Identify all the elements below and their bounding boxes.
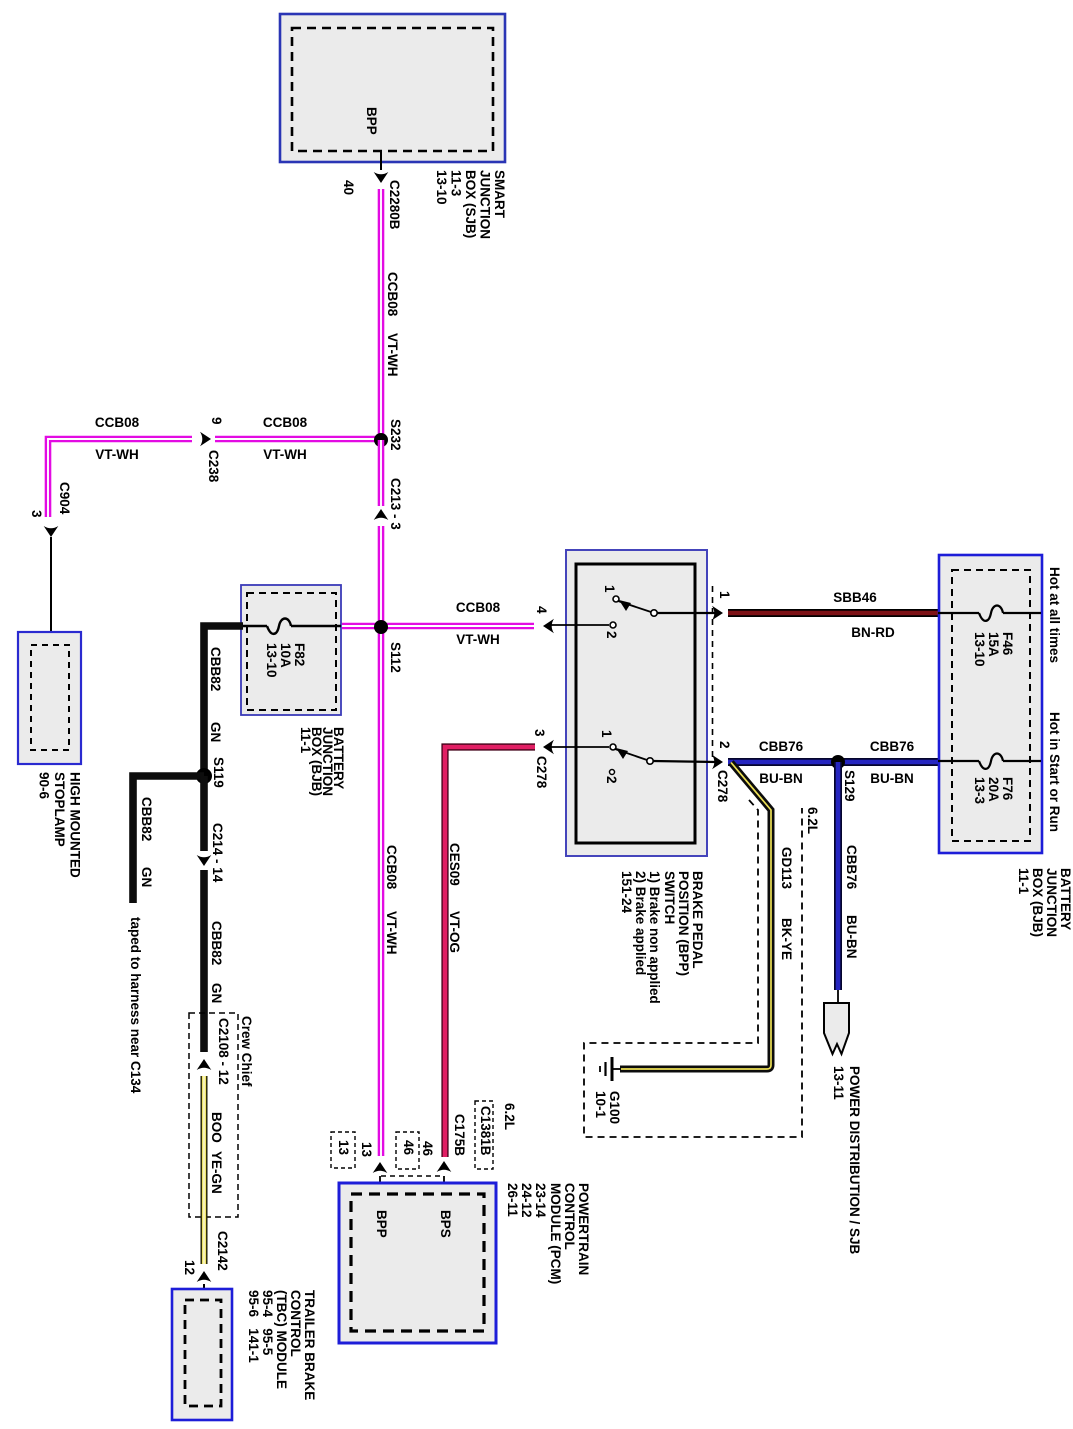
dashed box pin 13	[331, 1132, 355, 1168]
switch 2 output wire	[653, 761, 716, 762]
wire BOO YE-GN	[201, 1076, 208, 1264]
svg-text:F82: F82	[292, 643, 307, 666]
black wire CBB82 from F82 to S119	[204, 626, 243, 776]
6.2L dashed enclosure	[584, 800, 802, 1137]
svg-text:GN: GN	[209, 983, 224, 1003]
wire CCB08 vertical upper (VT-WH)	[378, 189, 385, 434]
label TRAILER BRAKE CONTROL (TBC) MODULE	[246, 1290, 317, 1400]
svg-text:VT-WH: VT-WH	[384, 911, 399, 955]
svg-text:Hot in Start or Run: Hot in Start or Run	[1047, 712, 1062, 832]
svg-text:46: 46	[401, 1140, 416, 1156]
connector 1 arrow right	[712, 606, 723, 621]
svg-text:2: 2	[604, 776, 619, 784]
svg-text:YE-GN: YE-GN	[209, 1151, 224, 1194]
label BATTERY JUNCTION BOX (BJB) 11-1 right	[1016, 868, 1073, 937]
svg-text:MODULE (PCM): MODULE (PCM)	[548, 1183, 563, 1284]
Crew Chief dashed box	[189, 1013, 238, 1217]
label F82 10A 13-10	[264, 643, 307, 678]
svg-text:CCB08: CCB08	[384, 845, 399, 890]
switch 1 pin 1 circle	[613, 596, 619, 602]
connector C175B arrow BPP	[373, 1162, 388, 1173]
switch 2 pin 1 circle	[610, 744, 616, 750]
svg-text:CONTROL: CONTROL	[288, 1290, 303, 1357]
svg-text:BPP: BPP	[364, 107, 379, 135]
dashed box pin 46	[396, 1132, 419, 1169]
connector 3 arrow	[543, 740, 554, 755]
svg-text:2) Brake applied: 2) Brake applied	[633, 871, 648, 975]
svg-text:40: 40	[341, 180, 356, 195]
svg-text:BU-BN: BU-BN	[759, 771, 803, 786]
svg-text:BU-BN: BU-BN	[870, 771, 914, 786]
svg-text:46: 46	[420, 1141, 435, 1157]
SJB box	[280, 14, 505, 162]
switch 1 pin 2 circle	[610, 622, 616, 628]
svg-text:C214 - 14: C214 - 14	[210, 823, 225, 883]
wire CCB08 vertical below C213	[378, 526, 385, 1156]
svg-text:S112: S112	[388, 642, 403, 673]
svg-text:CCB08: CCB08	[385, 272, 400, 317]
svg-text:C175B: C175B	[452, 1114, 467, 1156]
svg-text:6.2L: 6.2L	[502, 1103, 517, 1130]
svg-text:90-6: 90-6	[37, 772, 52, 800]
svg-text:POSITION (BPP): POSITION (BPP)	[676, 871, 691, 976]
svg-text:HIGH MOUNTED: HIGH MOUNTED	[68, 772, 83, 878]
wire CBB76 BU-BN horizontal	[728, 758, 938, 766]
svg-text:C2142: C2142	[215, 1231, 230, 1271]
wire CCB08 horizontal top-left with corner at C904	[48, 439, 381, 517]
BJB right box	[939, 555, 1042, 853]
svg-text:CCB08: CCB08	[456, 600, 501, 615]
connector C214-14 arrow	[197, 855, 212, 866]
svg-text:13: 13	[359, 1142, 374, 1158]
svg-text:CONTROL: CONTROL	[562, 1183, 577, 1250]
black wire branch to taped harness	[133, 776, 204, 903]
svg-text:CBB82: CBB82	[139, 797, 154, 841]
svg-text:20A: 20A	[986, 777, 1001, 802]
black wire to crew chief	[200, 870, 208, 1052]
svg-text:3: 3	[29, 510, 44, 518]
wire CES09 VT-OG	[445, 747, 535, 1157]
svg-text:C904: C904	[57, 482, 72, 515]
svg-text:SBB46: SBB46	[833, 590, 877, 605]
svg-text:GN: GN	[139, 867, 154, 887]
connector C2108 arrow	[197, 1059, 212, 1070]
svg-text:GN: GN	[208, 722, 223, 742]
svg-text:4: 4	[534, 606, 549, 614]
svg-text:C2108 - 12: C2108 - 12	[216, 1018, 231, 1085]
svg-text:9: 9	[209, 417, 224, 425]
SJB label	[434, 170, 507, 239]
svg-text:95-6 141-1: 95-6 141-1	[246, 1290, 261, 1363]
svg-text:13-11: 13-11	[831, 1066, 846, 1100]
svg-text:10A: 10A	[278, 643, 293, 668]
svg-text:C278: C278	[715, 770, 730, 803]
fuse F82	[243, 619, 341, 634]
switch 2 arm arrowhead	[616, 748, 628, 759]
svg-text:TRAILER BRAKE: TRAILER BRAKE	[302, 1290, 317, 1400]
svg-text:C213 - 3: C213 - 3	[388, 478, 403, 530]
svg-text:STOPLAMP: STOPLAMP	[52, 772, 67, 847]
svg-text:13-10: 13-10	[264, 643, 279, 678]
svg-text:2: 2	[717, 741, 732, 749]
svg-text:SMART: SMART	[492, 170, 507, 219]
F82 BJB box	[241, 585, 341, 715]
connector 2 arrow right	[712, 755, 723, 770]
svg-text:F46: F46	[1000, 632, 1015, 656]
connector C175B arrow BPS	[437, 1161, 452, 1172]
svg-text:S119: S119	[211, 757, 226, 788]
switch 2 wire from 3 arrow to pin 1	[548, 746, 609, 748]
svg-text:C238: C238	[206, 450, 221, 483]
svg-text:S232: S232	[388, 419, 403, 451]
svg-text:SWITCH: SWITCH	[662, 871, 677, 924]
wire CBB76 vertical	[834, 762, 842, 990]
wire stub PCM BPS	[443, 1176, 445, 1194]
label HIGH MOUNTED STOPLAMP	[37, 772, 83, 878]
svg-text:JUNCTION: JUNCTION	[1044, 868, 1059, 937]
wire stub to power distribution	[837, 990, 839, 1004]
svg-text:3: 3	[532, 729, 547, 737]
svg-text:BOX (BJB): BOX (BJB)	[1030, 868, 1045, 937]
switch 1 arm arrowhead	[619, 600, 631, 611]
svg-text:C278: C278	[534, 756, 549, 789]
svg-text:S129: S129	[842, 770, 857, 802]
svg-text:BPS: BPS	[438, 1210, 453, 1238]
label F76 20A 13-3	[972, 777, 1015, 805]
svg-text:JUNCTION: JUNCTION	[478, 170, 493, 239]
svg-text:GD113: GD113	[779, 847, 794, 890]
wire stub into TBC	[203, 1284, 205, 1301]
switch 1 output wire	[657, 612, 716, 614]
svg-text:BU-BN: BU-BN	[844, 915, 859, 959]
svg-text:1: 1	[717, 591, 732, 599]
svg-text:95-4 95-5: 95-4 95-5	[260, 1290, 275, 1356]
svg-text:13: 13	[336, 1140, 351, 1156]
switch 1 output circle	[651, 610, 657, 616]
svg-text:CBB76: CBB76	[870, 739, 915, 754]
fuse F46	[938, 606, 1041, 621]
svg-text:G100: G100	[607, 1091, 622, 1124]
svg-text:CCB08: CCB08	[95, 415, 140, 430]
svg-text:26-11: 26-11	[505, 1183, 520, 1217]
svg-text:151-24: 151-24	[619, 871, 634, 914]
svg-text:13-10: 13-10	[434, 170, 449, 205]
svg-text:23-14: 23-14	[533, 1183, 548, 1218]
svg-text:13-10: 13-10	[972, 632, 987, 667]
svg-text:BATTERY: BATTERY	[1058, 868, 1073, 930]
switch 2 output circle	[647, 758, 653, 764]
wire SBB46 BN-RD	[728, 609, 938, 617]
PCM box	[339, 1183, 496, 1343]
dashed box C1381B	[475, 1101, 493, 1169]
node S232	[374, 433, 388, 447]
svg-text:CCB08: CCB08	[263, 415, 308, 430]
connector C2142 arrow	[197, 1271, 212, 1282]
svg-text:2: 2	[604, 631, 619, 639]
wire to stoplamp	[50, 537, 52, 633]
svg-text:F76: F76	[1000, 777, 1015, 801]
svg-text:1) Brake non applied: 1) Brake non applied	[647, 871, 662, 1004]
fuse F76	[938, 754, 1041, 769]
svg-text:1: 1	[602, 585, 617, 593]
BPP switch box	[566, 550, 707, 856]
svg-text:15A: 15A	[986, 632, 1001, 657]
svg-text:BN-RD: BN-RD	[851, 625, 895, 640]
svg-text:BK-YE: BK-YE	[779, 918, 794, 960]
node S129	[831, 755, 845, 769]
connector 4 arrow	[543, 619, 554, 634]
wire stub PCM BPP	[379, 1176, 381, 1194]
svg-text:VT-WH: VT-WH	[385, 333, 400, 377]
svg-text:CBB82: CBB82	[208, 647, 223, 691]
TBC module box	[172, 1289, 232, 1420]
node S112	[374, 620, 388, 634]
black wire S119 down	[200, 776, 208, 851]
wire CCB08 horizontal mid	[342, 623, 534, 630]
svg-text:(TBC) MODULE: (TBC) MODULE	[274, 1290, 289, 1389]
switch 2 pin 2 circle	[610, 770, 615, 775]
node S119	[196, 768, 212, 784]
switch 1 arm	[618, 601, 651, 612]
connector C213-3 arrow	[374, 509, 389, 520]
wire GD113 BK-YE	[620, 763, 771, 1070]
svg-text:10-1: 10-1	[593, 1091, 608, 1119]
svg-text:13-3: 13-3	[972, 777, 987, 805]
wire SJB pin stub	[380, 151, 382, 170]
svg-text:VT-WH: VT-WH	[263, 447, 307, 462]
svg-text:12: 12	[182, 1260, 197, 1275]
HIGH MOUNTED STOPLAMP box	[18, 632, 81, 764]
svg-text:VT-OG: VT-OG	[447, 911, 462, 953]
svg-text:POWERTRAIN: POWERTRAIN	[576, 1183, 591, 1275]
connector C238 arrow	[200, 432, 211, 447]
svg-text:Hot at all times: Hot at all times	[1047, 567, 1062, 663]
svg-text:11-3: 11-3	[449, 170, 464, 197]
svg-text:BPP: BPP	[374, 1210, 389, 1238]
power distribution pentagon	[824, 1003, 849, 1054]
svg-text:BOX (SJB): BOX (SJB)	[463, 170, 478, 238]
svg-text:C2280B: C2280B	[387, 180, 402, 230]
svg-text:VT-WH: VT-WH	[456, 632, 500, 647]
svg-text:CES09: CES09	[447, 843, 462, 886]
svg-text:11-1: 11-1	[298, 727, 313, 754]
svg-text:6.2L: 6.2L	[805, 807, 820, 834]
label POWERTRAIN CONTROL MODULE (PCM)	[505, 1183, 591, 1284]
svg-text:CBB76: CBB76	[759, 739, 804, 754]
svg-text:1: 1	[599, 730, 614, 738]
svg-text:BOO: BOO	[209, 1112, 224, 1143]
switch 1 wire from 4 arrow to pin 2	[548, 624, 609, 626]
svg-text:11-1: 11-1	[1016, 868, 1031, 895]
svg-text:POWER DISTRIBUTION / SJB: POWER DISTRIBUTION / SJB	[847, 1066, 862, 1255]
ground G100	[600, 1057, 621, 1081]
dashed connector line C175B	[381, 1175, 443, 1177]
connector C278 dashed line	[712, 586, 714, 757]
switch 2 arm	[615, 749, 647, 760]
wire CCB08 vertical mid	[378, 440, 385, 506]
svg-text:Crew Chief: Crew Chief	[239, 1016, 254, 1087]
svg-text:CBB76: CBB76	[844, 845, 859, 890]
label BATTERY JUNCTION BOX (BJB) 11-1 left	[298, 727, 346, 796]
label F46 15A 13-10	[972, 632, 1015, 667]
svg-text:CBB82: CBB82	[209, 921, 224, 965]
svg-text:24-12: 24-12	[519, 1183, 534, 1218]
connector C904 arrow	[44, 526, 59, 537]
svg-text:VT-WH: VT-WH	[95, 447, 139, 462]
connector C2280B arrow	[374, 172, 389, 183]
svg-text:taped to harness near C134: taped to harness near C134	[128, 917, 143, 1094]
svg-text:C1381B: C1381B	[478, 1106, 493, 1156]
label BRAKE PEDAL POSITION (BPP) SWITCH	[619, 871, 705, 1004]
svg-text:BRAKE PEDAL: BRAKE PEDAL	[690, 871, 705, 969]
